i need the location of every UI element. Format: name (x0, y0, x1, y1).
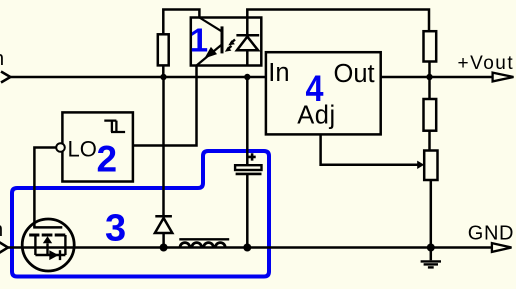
svg-text:1: 1 (190, 21, 208, 58)
wire: LO gate net (34, 148, 56, 228)
wire: main input net y77 (8, 76, 266, 79)
svg-text:Out: Out (334, 60, 375, 88)
wire: Out net (381, 76, 493, 79)
inversion bubble (56, 143, 65, 152)
junction dot D2/rail (160, 244, 168, 252)
potentiometer R4 (424, 151, 437, 181)
MOSFET Q1 circle (22, 219, 74, 271)
junction dot GND (427, 244, 435, 252)
junction dot cap/rail (243, 244, 251, 252)
svg-text:+Vout: +Vout (458, 53, 515, 74)
svg-text:LO: LO (68, 137, 97, 162)
blue region 3 outline (12, 151, 269, 277)
wire: R3 to R4 (428, 131, 431, 151)
resistor R3 (424, 99, 437, 131)
wire: bottom rail (6, 246, 492, 249)
input arrow bottom (0, 242, 8, 253)
wire: R4 to GND rail (430, 180, 433, 248)
junction dot node A (R1/diode) (160, 74, 166, 80)
diode D2 (155, 216, 172, 247)
ground symbol (421, 248, 441, 268)
opto phototransistor (197, 18, 223, 66)
svg-text:n: n (0, 219, 3, 241)
junction dot node B (LED/cap) (244, 74, 250, 80)
svg-text:3: 3 (105, 208, 126, 250)
resistor R2 (424, 31, 437, 61)
svg-text:2: 2 (97, 139, 118, 180)
driver U2 box (62, 112, 132, 181)
wire: node B to cap to rail (246, 77, 249, 248)
svg-text:GND: GND (468, 223, 514, 245)
inductor L1 (179, 239, 229, 247)
input arrow top (1, 72, 10, 83)
wire: top net LED to R2 (247, 10, 429, 32)
wire: R2 to R3 (428, 62, 431, 100)
resistor R1 (opto series) (158, 34, 169, 65)
svg-text:In: In (268, 59, 289, 87)
pulse symbol (104, 121, 125, 132)
wire: node A down to diode D2 (162, 77, 165, 216)
opto LED D1 (236, 18, 259, 66)
junction dot Out/R2 (426, 74, 432, 80)
svg-text:Adj: Adj (297, 102, 335, 130)
wire: emitter down to driver (133, 66, 197, 146)
opto light arrows (225, 40, 235, 52)
svg-text:n: n (0, 48, 4, 70)
regulator U3 box (266, 52, 381, 134)
capacitor C1 (235, 153, 261, 174)
optocoupler U1 box (191, 18, 261, 66)
+Vout arrow (493, 73, 514, 82)
MOSFET Q1 symbol (29, 227, 65, 260)
wire: resistor R1 top to opto collector (163, 10, 199, 78)
wire: Adj net (321, 134, 418, 164)
GND arrow (492, 243, 512, 252)
wiper arrow R4 (417, 161, 424, 169)
